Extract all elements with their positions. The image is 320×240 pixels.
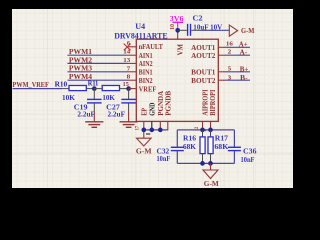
wire PWM2 [68, 62, 128, 64]
svg-text:PGNDB: PGNDB [163, 91, 172, 116]
svg-text:10nF: 10nF [157, 154, 171, 163]
svg-text:17: 17 [135, 126, 141, 131]
wire PWM3 [68, 71, 128, 73]
svg-text:VREF: VREF [139, 84, 157, 93]
resistor R11 left lead [94, 88, 102, 90]
capacitor C27 top lead [128, 89, 130, 100]
wire PWM1 [68, 54, 128, 56]
wire B- [226, 79, 251, 81]
svg-text:VM: VM [176, 44, 185, 56]
resistor R10 right lead [86, 88, 94, 90]
pin 6 nFAULT stub [128, 46, 136, 48]
capacitor C2 left lead [178, 29, 187, 31]
junction GND [149, 128, 154, 133]
pin 8 BIN2 stub [128, 79, 137, 81]
capacitor C32 plates [171, 146, 184, 148]
resistor R16 bottom lead [202, 154, 204, 164]
pin AIPROPI stub [202, 122, 204, 130]
no-ERC cross on pin 6 [124, 44, 131, 51]
svg-text:13: 13 [123, 57, 131, 64]
junction EP [141, 128, 146, 133]
junction R17 bottom [208, 161, 213, 166]
pin 2 AOUT2 stub [218, 54, 225, 56]
sheet background [12, 9, 293, 188]
pin 3 BOUT2 stub [218, 79, 225, 81]
port G-M top triangle [229, 25, 237, 36]
svg-text:10: 10 [170, 24, 176, 30]
junction R16 bottom [200, 161, 205, 166]
port G-M bottom triangle [203, 170, 218, 179]
svg-text:2.2uF: 2.2uF [108, 109, 126, 118]
wire B+ [226, 71, 251, 73]
svg-text:15: 15 [123, 81, 130, 88]
capacitor C19 plates [87, 98, 102, 100]
resistor R11 body [102, 86, 119, 91]
wire PWM_VREF [13, 88, 63, 90]
svg-text:R11: R11 [88, 79, 99, 88]
svg-text:10K: 10K [62, 93, 75, 102]
pin BIPROPI stub [210, 122, 212, 130]
power 3V6 bar symbol [173, 21, 184, 23]
ground symbol below C27 [120, 111, 138, 127]
resistor R17 bottom lead [210, 154, 212, 164]
svg-text:PWM_VREF: PWM_VREF [13, 80, 50, 89]
resistor R16 top lead [202, 130, 204, 137]
svg-text:G-M: G-M [204, 179, 219, 188]
port G-M bottom stem [210, 163, 212, 170]
IC U4 body [136, 39, 218, 121]
port G-M left triangle [137, 138, 152, 146]
wire IPROPI bottom rail [177, 162, 234, 164]
capacitor C2 plates [187, 24, 189, 36]
wire A+ [226, 46, 251, 48]
pin 16 AOUT1 stub [218, 46, 225, 48]
svg-text:B+: B+ [240, 64, 249, 73]
capacitor C19 bottom lead [93, 103, 95, 111]
resistor R10 body [69, 86, 86, 91]
pin 10 VM stub [177, 30, 179, 39]
resistor R10 left lead [62, 88, 69, 90]
wire IPROPI top rail [177, 129, 234, 131]
wire C36 branch lower [233, 151, 235, 164]
svg-text:10K: 10K [102, 93, 115, 102]
junction AIPROPI [200, 128, 205, 133]
svg-text:16: 16 [226, 41, 234, 48]
pin PGNDB stub [167, 122, 169, 130]
svg-text:68K: 68K [214, 142, 228, 151]
resistor R17 top lead [210, 130, 212, 137]
node VM junction [175, 28, 180, 33]
ground symbol below C19 [85, 111, 103, 127]
capacitor C36 plates [228, 146, 241, 148]
svg-text:C2: C2 [193, 13, 203, 22]
capacitor C27 plates [121, 98, 136, 100]
wire PWM4 [68, 79, 128, 81]
pin 7 BIN1 stub [128, 71, 137, 73]
svg-text:2.2uF: 2.2uF [77, 109, 95, 118]
wire A- [226, 54, 251, 56]
wire C32 branch upper [176, 130, 178, 147]
svg-text:BIPROPI: BIPROPI [208, 89, 217, 115]
junction BIPROPI [208, 128, 213, 133]
svg-text:B-: B- [240, 73, 248, 82]
wire C36 branch upper [233, 130, 235, 147]
svg-text:G-M: G-M [241, 26, 254, 35]
svg-text:G-M: G-M [136, 146, 152, 155]
svg-text:DRV8411ARTE: DRV8411ARTE [114, 31, 168, 41]
resistor R11 right lead [120, 88, 129, 90]
capacitor C2 right lead [191, 29, 199, 31]
node VREF junction A [92, 86, 97, 91]
resistor R16 body [200, 137, 205, 154]
capacitor C27 bottom lead [128, 103, 130, 111]
sheet major grid lines [12, 9, 293, 188]
wire C32 branch lower [176, 151, 178, 164]
svg-text:12: 12 [195, 126, 200, 131]
sheet grid [12, 9, 293, 188]
junction PGNDA [158, 128, 163, 133]
pin 13 AIN2 stub [128, 62, 137, 64]
svg-text:68K: 68K [183, 142, 196, 151]
node VREF junction B [126, 86, 131, 91]
pin 15 VREF stub [129, 88, 137, 90]
svg-text:10uF 10V: 10uF 10V [193, 22, 222, 31]
svg-text:R10: R10 [55, 80, 68, 89]
svg-text:10nF: 10nF [241, 155, 255, 164]
wire GND tie [144, 129, 169, 131]
svg-text:14: 14 [123, 49, 131, 56]
wire VM net to port G-M [199, 29, 229, 31]
svg-text:BOUT2: BOUT2 [191, 76, 216, 85]
pin number dash for GND [146, 133, 150, 135]
pin 17 EP stub [143, 122, 145, 139]
pin PGNDA stub [159, 122, 161, 130]
pin 14 AIN1 stub [128, 54, 137, 56]
pin 5 BOUT1 stub [218, 71, 225, 73]
svg-text:A-: A- [240, 47, 248, 56]
svg-text:AOUT2: AOUT2 [191, 51, 216, 60]
pin GND stub [151, 122, 153, 130]
svg-text:nFAULT: nFAULT [139, 42, 163, 51]
capacitor C19 top lead [93, 89, 95, 100]
resistor R17 body [208, 137, 213, 154]
